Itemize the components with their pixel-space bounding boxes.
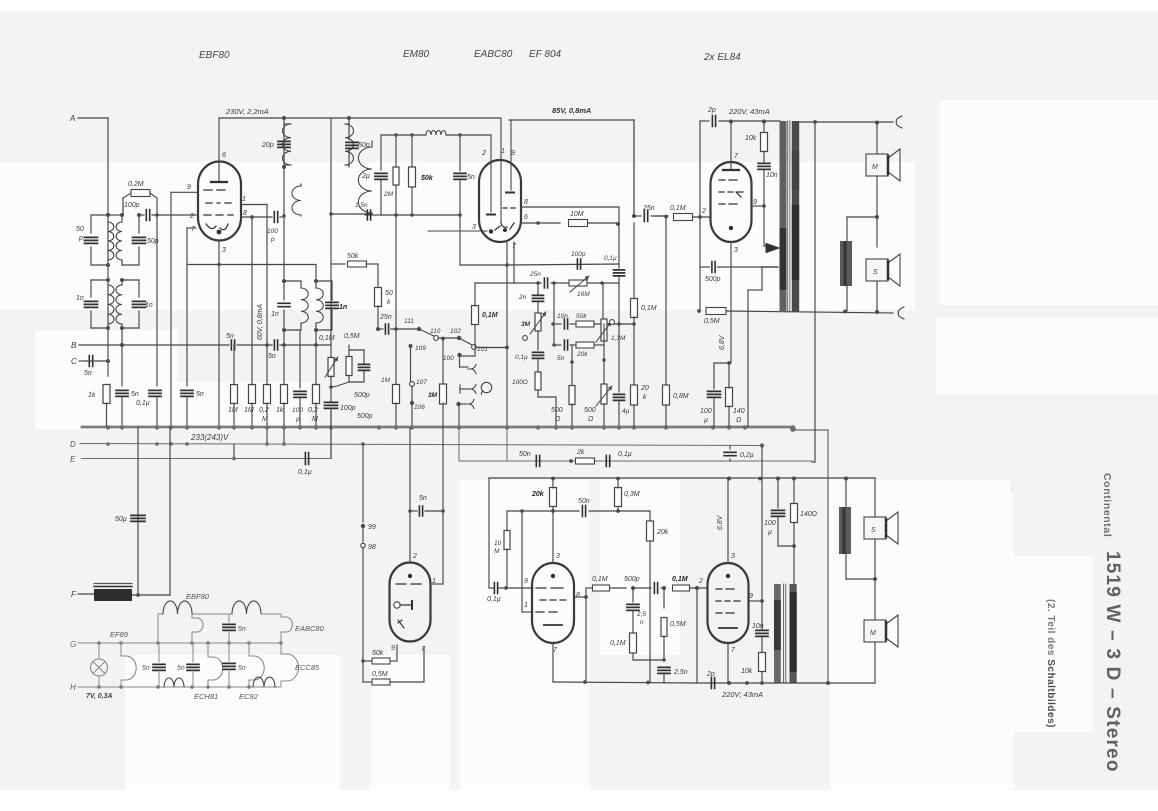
svg-text:220V; 43mA: 220V; 43mA: [721, 690, 763, 699]
internals EM80: [408, 574, 412, 578]
long vertical x815: [814, 122, 816, 462]
svg-text:0,5M: 0,5M: [344, 333, 360, 340]
pin 7 wire V5: [727, 643, 729, 683]
row y511: [507, 510, 553, 512]
svg-text:500: 500: [551, 407, 563, 414]
svg-text:Ω: Ω: [736, 417, 742, 424]
svg-text:500p: 500p: [357, 413, 373, 420]
svg-text:2: 2: [698, 578, 703, 585]
resistor 10M: [521, 222, 560, 224]
svg-text:Ω: Ω: [555, 416, 561, 423]
svg-text:0,1M: 0,1M: [672, 576, 688, 583]
svg-text:50: 50: [385, 290, 393, 297]
svg-text:8: 8: [524, 199, 528, 206]
svg-text:10n: 10n: [766, 172, 778, 179]
resistor 20k lower: [550, 488, 557, 507]
svg-text:0,1M: 0,1M: [319, 335, 335, 342]
svg-text:102: 102: [450, 328, 461, 335]
svg-text:0,5M: 0,5M: [372, 671, 388, 678]
capacitor 0,1u column: [156, 215, 158, 386]
svg-text:0,3M: 0,3M: [624, 491, 640, 498]
coil tank4 1n: [121, 280, 123, 285]
capacitor 0,1u right: [618, 224, 620, 268]
svg-text:D: D: [70, 440, 76, 449]
svg-text:B: B: [71, 341, 77, 350]
svg-text:5n: 5n: [131, 391, 139, 398]
svg-text:k: k: [387, 299, 391, 306]
heater bump x249: [248, 643, 250, 656]
svg-text:0,1µ: 0,1µ: [136, 400, 150, 407]
capacitor 100p bank col wire: [299, 330, 301, 388]
svg-text:7V, 0,3A: 7V, 0,3A: [86, 693, 113, 700]
svg-text:2,5n: 2,5n: [673, 669, 688, 676]
svg-text:1n: 1n: [145, 302, 153, 309]
capacitor 5n h4: [228, 643, 230, 661]
B row caps 5n 5n: [122, 344, 229, 346]
capacitor 25n to EL84: [633, 120, 635, 216]
svg-text:1519 W – 3 D – Stereo: 1519 W – 3 D – Stereo: [1102, 551, 1123, 773]
resistor bank: [231, 385, 238, 404]
heater bump EABC80: [280, 614, 282, 617]
svg-text:5n: 5n: [142, 665, 150, 672]
tube EL84 V3: [711, 162, 752, 242]
heater loop EBF80: [158, 613, 163, 615]
svg-text:1n: 1n: [76, 295, 84, 302]
cathode V2 wire: [506, 242, 508, 265]
svg-text:10k: 10k: [741, 668, 753, 675]
svg-text:110: 110: [430, 328, 441, 335]
svg-text:8: 8: [243, 210, 247, 217]
svg-text:A: A: [69, 114, 75, 123]
internals V5: [726, 574, 730, 578]
heater bump x208: [207, 643, 209, 657]
svg-text:G: G: [70, 640, 76, 649]
speaker S lower: [874, 478, 876, 516]
svg-text:5n: 5n: [557, 355, 565, 362]
svg-text:0,8M: 0,8M: [673, 393, 689, 400]
capacitor 5n bridge: [409, 428, 411, 563]
row y324 10n 50k: [553, 323, 561, 325]
svg-text:230V, 2,2mA: 230V, 2,2mA: [225, 107, 269, 116]
wire x363 long: [362, 444, 364, 522]
resistor 20k x650: [649, 511, 651, 521]
svg-text:50k: 50k: [347, 253, 359, 260]
svg-text:2p: 2p: [706, 671, 715, 678]
coil IF2b: [358, 147, 372, 213]
svg-text:98: 98: [368, 544, 376, 551]
capacitor 50p IF2: [348, 118, 350, 140]
svg-text:1M: 1M: [381, 377, 391, 384]
resistor 0,2M: [122, 198, 124, 215]
svg-text:100: 100: [764, 520, 776, 527]
capacitor 20p: [283, 118, 285, 167]
capacitor 100p det: [577, 259, 580, 269]
capacitor 0,1u grid: [494, 583, 497, 594]
svg-text:0,1M: 0,1M: [610, 640, 626, 647]
svg-text:50k: 50k: [372, 650, 384, 657]
svg-text:3: 3: [734, 247, 738, 254]
svg-text:E: E: [70, 455, 76, 464]
svg-text:25n: 25n: [529, 271, 541, 278]
heater coil EC92: [253, 677, 275, 687]
svg-text:µ: µ: [768, 529, 772, 536]
svg-text:0,1M: 0,1M: [592, 576, 608, 583]
svg-text:50k: 50k: [576, 313, 587, 320]
svg-text:10n: 10n: [557, 313, 568, 320]
speaker M upper: [866, 154, 888, 176]
svg-text:S: S: [871, 527, 876, 534]
svg-text:0,1µ: 0,1µ: [298, 469, 312, 476]
svg-text:EBF80: EBF80: [199, 50, 230, 61]
wire x522 pin1: [521, 511, 523, 612]
resistor 0,2M bank2: [313, 385, 320, 404]
svg-text:3: 3: [472, 224, 476, 231]
svg-text:100p: 100p: [571, 251, 586, 258]
svg-text:n: n: [640, 619, 644, 626]
capacitor 5n shunt: [459, 135, 461, 171]
capacitor 50n lower: [553, 510, 579, 512]
svg-text:2x EL84: 2x EL84: [703, 52, 741, 63]
svg-text:0,5M: 0,5M: [670, 621, 686, 628]
coil IF1a: [283, 124, 291, 165]
svg-text:100p: 100p: [124, 202, 140, 209]
pin1 wire EM80: [431, 583, 443, 585]
internals V2: [490, 135, 492, 212]
svg-text:ECH81: ECH81: [194, 692, 218, 701]
svg-text:0,2M: 0,2M: [128, 181, 144, 188]
svg-text:1M: 1M: [228, 407, 238, 414]
resistor 0,5M x664: [663, 588, 665, 608]
resistor 0,1M x633: [630, 633, 637, 653]
capacitor 50n row: [536, 456, 539, 467]
capacitor 100p dark: [325, 402, 338, 408]
row y283 25n + 16M: [514, 282, 541, 284]
svg-text:M: M: [494, 548, 500, 555]
speaker S upper: [866, 259, 888, 281]
tube EM80: [390, 563, 431, 642]
cathode network V3: [730, 242, 732, 363]
svg-text:ECC85: ECC85: [295, 663, 320, 672]
svg-text:0,1M: 0,1M: [482, 312, 498, 319]
wire E lower row: [459, 460, 812, 462]
svg-text:50n: 50n: [578, 498, 590, 505]
svg-text:M: M: [870, 630, 876, 637]
resistor 0,3M: [615, 488, 622, 507]
resistor 10k V5: [759, 653, 766, 672]
coil IF2a: [345, 124, 353, 165]
wire y264 left: [187, 264, 316, 266]
svg-text:EC92: EC92: [239, 692, 259, 701]
svg-text:6,8V: 6,8V: [719, 334, 726, 350]
wire 50u column: [137, 427, 139, 595]
svg-text:0,1M: 0,1M: [641, 305, 657, 312]
capacitor 1,5n series: [365, 214, 372, 216]
wire 230V top: [219, 117, 500, 119]
svg-text:4µ: 4µ: [622, 408, 630, 415]
switch row y329: [376, 327, 380, 331]
capacitor 2n: [537, 283, 539, 294]
resistor 1k: [103, 385, 110, 404]
pin 8 wire V2: [521, 206, 619, 208]
svg-text:100: 100: [700, 408, 712, 415]
svg-text:140Ω: 140Ω: [800, 511, 818, 518]
svg-text:5n: 5n: [238, 626, 246, 633]
capacitor 500p lower: [633, 587, 651, 589]
wire x267 column: [266, 205, 268, 346]
capacitor 0,2u: [724, 452, 736, 455]
resistor 10k V3: [763, 121, 765, 132]
pin 3 cathode wire: [218, 241, 220, 427]
pin 9 wire: [171, 191, 198, 193]
clip upper right: [896, 116, 902, 128]
svg-text:9: 9: [753, 199, 757, 206]
svg-text:S: S: [873, 269, 878, 276]
svg-text:99: 99: [368, 524, 376, 531]
top row y478: [489, 477, 875, 479]
svg-text:3: 3: [222, 247, 226, 254]
svg-text:9: 9: [511, 150, 515, 157]
capacitor 2p top: [699, 121, 701, 217]
svg-text:1,5n: 1,5n: [355, 202, 368, 209]
node E bus: [82, 458, 331, 460]
svg-text:2: 2: [481, 150, 486, 157]
svg-text:100Ω: 100Ω: [512, 379, 528, 386]
svg-text:220V, 43mA: 220V, 43mA: [728, 107, 770, 116]
svg-text:0,2µ: 0,2µ: [740, 452, 754, 459]
wire x489 down: [488, 478, 490, 588]
heater bump EF89: [120, 643, 122, 656]
pot 500ohm right: [601, 384, 607, 404]
svg-text:2n: 2n: [518, 294, 527, 301]
svg-text:0,1µ: 0,1µ: [618, 451, 632, 458]
svg-text:60V, 0,8mA: 60V, 0,8mA: [257, 304, 264, 340]
capacitor 2,5n x633: [632, 588, 634, 602]
secondary taps T1: [762, 266, 778, 268]
resistor 1M b: [442, 340, 444, 384]
svg-text:2: 2: [189, 213, 194, 220]
svg-text:8: 8: [576, 592, 580, 599]
svg-text:M: M: [312, 416, 318, 423]
wire y215 to tube V2: [381, 214, 460, 216]
svg-text:C: C: [71, 357, 77, 366]
svg-text:20k: 20k: [656, 529, 669, 536]
svg-text:20k: 20k: [576, 351, 588, 358]
svg-text:109: 109: [415, 345, 426, 352]
resistor 10M lower: [506, 511, 508, 530]
row y588 right: [586, 587, 594, 589]
svg-text:p: p: [295, 416, 300, 423]
svg-text:1n: 1n: [339, 304, 347, 311]
capacitor 0,1u row: [606, 456, 609, 467]
svg-text:25n: 25n: [379, 314, 392, 321]
anode arrow to transformer: [763, 206, 765, 246]
svg-text:0,1µ: 0,1µ: [604, 255, 617, 262]
pin 9 wire V3: [751, 205, 764, 207]
pin7 wire V2: [513, 242, 515, 283]
svg-text:9: 9: [187, 184, 191, 191]
wire y135 + coil: [381, 134, 426, 136]
resistor 0,8M x666: [664, 215, 668, 219]
capacitor 5n h2: [158, 643, 160, 662]
wire H row: [99, 686, 281, 688]
svg-text:5n: 5n: [84, 370, 92, 377]
svg-text:EF 804: EF 804: [529, 49, 561, 60]
svg-text:EABC80: EABC80: [474, 49, 513, 60]
svg-text:6,8V: 6,8V: [717, 514, 724, 530]
switch 107/106: [409, 344, 413, 348]
capacitor 0,1u det: [533, 352, 544, 358]
speaker M lower: [874, 539, 876, 620]
svg-text:111: 111: [404, 318, 414, 325]
tube ECC85-section V4: [532, 563, 574, 643]
svg-text:1k: 1k: [88, 392, 96, 399]
bottom rail 220V: [697, 682, 875, 684]
svg-text:EM80: EM80: [403, 49, 430, 60]
grid dashes V1: [204, 190, 233, 215]
svg-text:50µ: 50µ: [115, 516, 127, 523]
row y264: [507, 264, 619, 265]
wire G row: [99, 642, 281, 644]
svg-text:p: p: [78, 235, 83, 242]
capacitor 5n series C: [89, 356, 92, 367]
svg-text:100: 100: [443, 355, 454, 362]
transformer T1: [780, 121, 787, 312]
svg-text:140: 140: [733, 408, 745, 415]
node Q chassis bus 233(243)V: [82, 426, 793, 429]
pin 8 wire V4: [574, 596, 586, 598]
bus dots: [106, 425, 110, 429]
transformer T2: [774, 584, 781, 683]
svg-text:EBF80: EBF80: [186, 592, 210, 601]
svg-text:85V, 0,8mA: 85V, 0,8mA: [552, 106, 591, 115]
pin 9 wire V5: [749, 600, 762, 602]
svg-text:5n: 5n: [419, 495, 427, 502]
resistor 2k row: [576, 458, 595, 464]
svg-text:0,5M: 0,5M: [704, 318, 720, 325]
svg-text:2: 2: [701, 208, 706, 215]
svg-text:1k: 1k: [276, 407, 284, 414]
resistor 0,1M x634: [631, 299, 638, 318]
svg-text:2µ: 2µ: [361, 173, 370, 180]
svg-text:25n: 25n: [642, 205, 655, 212]
resistor 0,1M to V5: [673, 585, 690, 591]
pin 7 wire + 5n: [187, 227, 196, 229]
svg-text:20p: 20p: [261, 142, 274, 149]
svg-text:0,1M: 0,1M: [670, 205, 686, 212]
svg-text:1: 1: [242, 196, 246, 203]
svg-text:5n: 5n: [268, 353, 276, 360]
capacitor 5n heater1: [228, 614, 230, 622]
resistor 0,1M grid EL84: [656, 215, 665, 217]
svg-text:10k: 10k: [745, 135, 757, 142]
electrostatic unit upper: [847, 216, 877, 218]
capacitor 2,5n x664: [658, 667, 670, 673]
svg-text:10n: 10n: [752, 623, 764, 630]
capacitor 4u: [618, 283, 620, 324]
svg-text:500: 500: [584, 407, 596, 414]
svg-text:100p: 100p: [340, 405, 356, 412]
capacitor 100p bank: [294, 391, 306, 397]
svg-text:3: 3: [556, 553, 560, 560]
wire A vertical: [107, 118, 109, 376]
svg-text:1: 1: [501, 148, 505, 155]
svg-text:5n: 5n: [226, 333, 234, 340]
heater coil ECH81: [164, 678, 184, 687]
capacitor 10n V3: [758, 163, 770, 169]
wire x331 down: [330, 264, 332, 345]
tube EABC80 V2: [479, 160, 521, 242]
svg-text:0,2: 0,2: [308, 407, 318, 414]
svg-text:0,1µ: 0,1µ: [487, 596, 501, 603]
svg-text:5n: 5n: [467, 174, 475, 181]
svg-text:500p: 500p: [354, 392, 370, 399]
svg-text:50n: 50n: [519, 451, 531, 458]
svg-text:5n: 5n: [196, 391, 204, 398]
svg-text:5n: 5n: [238, 665, 246, 672]
svg-text:EF89: EF89: [110, 630, 129, 639]
capacitor 2p lower: [711, 678, 714, 689]
svg-text:9: 9: [749, 593, 753, 600]
svg-text:1n: 1n: [271, 311, 279, 318]
svg-text:2,5: 2,5: [636, 611, 646, 618]
svg-text:20k: 20k: [531, 491, 545, 498]
svg-text:500p: 500p: [705, 276, 721, 283]
choke F: [94, 589, 132, 601]
svg-text:50k: 50k: [421, 175, 434, 182]
tank A 1n mid: [284, 280, 301, 282]
internals V4: [551, 574, 555, 578]
internals V3: [730, 122, 732, 170]
heater bump ECC85: [280, 643, 282, 654]
wire x170: [169, 427, 171, 595]
svg-text:2p: 2p: [707, 107, 716, 114]
capacitor 100p series: [139, 214, 144, 216]
capacitor 5n h3: [192, 643, 194, 662]
wire switch output x507: [477, 347, 507, 349]
capacitor 5n column B: [121, 345, 123, 386]
resistor 20k x634 mid: [633, 324, 635, 385]
svg-text:Ω: Ω: [588, 416, 594, 423]
svg-text:9: 9: [391, 645, 395, 652]
capacitor 100u lower: [777, 478, 779, 508]
svg-text:6: 6: [222, 152, 226, 159]
svg-text:2k: 2k: [576, 449, 585, 456]
tube EL84 V5: [708, 563, 749, 643]
svg-text:6: 6: [524, 214, 528, 221]
coil tank1 50p: [91, 214, 108, 216]
pin 1 wire: [241, 204, 267, 206]
svg-text:M: M: [872, 164, 878, 171]
svg-text:100: 100: [267, 228, 278, 235]
pin7 wire V4: [552, 643, 554, 682]
capacitor 25n series: [632, 214, 636, 218]
cathode V1: [206, 224, 228, 230]
svg-text:2M: 2M: [383, 191, 394, 198]
svg-text:3: 3: [731, 553, 735, 560]
E row 0,1u cap: [233, 444, 235, 459]
resistor 100ohm: [535, 372, 541, 390]
capacitor 10n V5: [756, 630, 768, 636]
svg-text:107: 107: [416, 379, 427, 386]
svg-text:3M: 3M: [521, 321, 531, 328]
svg-text:100: 100: [292, 407, 303, 414]
D dots: [106, 442, 110, 446]
resistor 0,1M switch: [474, 325, 476, 349]
resistor 2M: [395, 135, 397, 167]
svg-text:10M: 10M: [570, 211, 584, 218]
resistor 50k bold: [411, 135, 413, 167]
resistor 50k horiz: [331, 263, 345, 265]
